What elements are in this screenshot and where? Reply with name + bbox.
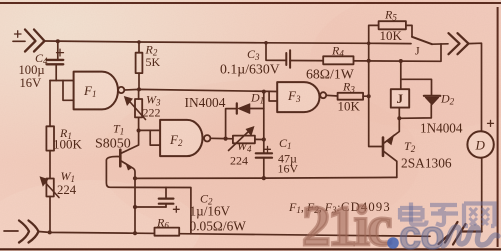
wire snubber line y61 bbox=[266, 43, 441, 62]
potentiometer W4 bbox=[233, 136, 255, 144]
node F3 output bubble bbox=[320, 92, 326, 98]
node + right edge bbox=[488, 120, 494, 126]
wire input stub bbox=[13, 40, 25, 42]
node junction W3/F2/T1 bbox=[137, 128, 141, 132]
wire T1 base loop bbox=[106, 157, 190, 234]
op-amp U1 : NAND gate F1 body bbox=[74, 72, 118, 110]
wire base column x369 bbox=[369, 43, 382, 146]
battery terminal chevrons bottom-right bbox=[439, 222, 482, 245]
potentiometer W1 bbox=[46, 179, 53, 197]
watermark blue dot bbox=[387, 237, 399, 249]
node junction D2 bottom bbox=[397, 116, 401, 120]
wire H1 emitter line to T2 collector bbox=[135, 177, 397, 178]
wire left rail bbox=[49, 81, 51, 233]
node junction R2/W3 column bbox=[137, 87, 141, 91]
scan border right bbox=[497, 7, 499, 247]
watermark script m bbox=[443, 227, 498, 246]
node junction y61 x369 bbox=[367, 59, 371, 63]
node junction F2out D1 bbox=[224, 137, 228, 141]
watermark 21ic bbox=[302, 195, 498, 251]
node junction R3 right bbox=[367, 94, 371, 98]
ammeter D circle bbox=[467, 131, 493, 157]
node F1 output bubble bbox=[118, 87, 124, 93]
node top rail junction snubber tee bbox=[264, 41, 268, 45]
wire right rail lower bbox=[481, 158, 483, 232]
resistor R2 bbox=[138, 42, 140, 89]
diode D2 bbox=[424, 95, 440, 97]
node junction bottom left rail bbox=[48, 230, 52, 234]
wire F2 input bbox=[139, 129, 161, 131]
node + (input plus sign) bbox=[15, 31, 22, 38]
node top rail junction R2 bbox=[137, 40, 141, 44]
scan border bottom bbox=[0, 248, 501, 250]
capacitor C2 bbox=[165, 187, 167, 198]
capacitor C3 bbox=[286, 50, 290, 67]
watermark 电子网 bbox=[400, 203, 495, 227]
wire F2 input jumper bbox=[150, 130, 160, 145]
op-amp U3 : NAND gate F3 body bbox=[277, 82, 319, 112]
wire relay to D2 top bbox=[401, 79, 432, 95]
transistor Q1 T1 bbox=[119, 150, 122, 166]
node junction F3 input bbox=[262, 90, 266, 94]
node top rail junction R5 bbox=[367, 42, 371, 46]
relay coil J bbox=[400, 61, 402, 89]
node junction y61 relay bbox=[399, 59, 403, 63]
resistor R6 bbox=[155, 228, 180, 236]
wire F1 input jumper bbox=[63, 81, 74, 101]
node top rail junction C4 bbox=[56, 39, 60, 43]
node junction H1-C1 bbox=[262, 176, 266, 180]
scan border top bbox=[0, 2, 501, 4]
wire bottom-left stub bbox=[4, 230, 18, 232]
wire D1/C1/F3 vertical bbox=[263, 92, 265, 153]
node junction V1-H3 bbox=[133, 205, 137, 209]
wire F1 output to F3 input bbox=[124, 89, 277, 91]
capacitor C4 bbox=[57, 41, 59, 58]
diode D1 bbox=[226, 109, 237, 139]
transistor Q2 T2 bbox=[382, 138, 385, 156]
wire bottom rail bbox=[39, 232, 431, 237]
wire H3 C2 negative bbox=[135, 206, 166, 208]
wire F2 output bbox=[210, 137, 233, 140]
wire relay bottom to T2 emitter bbox=[384, 108, 399, 143]
ground-side terminal chevrons bottom-left bbox=[19, 221, 39, 243]
wire F1 input bbox=[50, 80, 74, 82]
potentiometer W3 bbox=[138, 89, 140, 130]
resistor R4 bbox=[323, 56, 353, 64]
resistor R1 bbox=[46, 126, 54, 150]
node junction bottom V1 bbox=[133, 231, 137, 235]
resistor R3 bbox=[326, 94, 337, 97]
switch J blade bbox=[412, 37, 432, 44]
node junction V1-H1 bbox=[133, 176, 137, 180]
input terminal chevrons bbox=[25, 30, 45, 52]
op-amp U2 : NAND gate F2 body bbox=[160, 120, 202, 156]
node junction W4 right bbox=[262, 137, 266, 141]
node F2 output bubble bbox=[204, 135, 210, 141]
capacitor C1 bbox=[256, 153, 272, 157]
wire top rail bbox=[45, 41, 412, 44]
wire to right rail bbox=[469, 43, 482, 131]
wire F3 input jumper bbox=[269, 92, 277, 102]
output terminal chevrons top-right bbox=[449, 33, 469, 54]
resistor R5 bbox=[369, 25, 379, 43]
